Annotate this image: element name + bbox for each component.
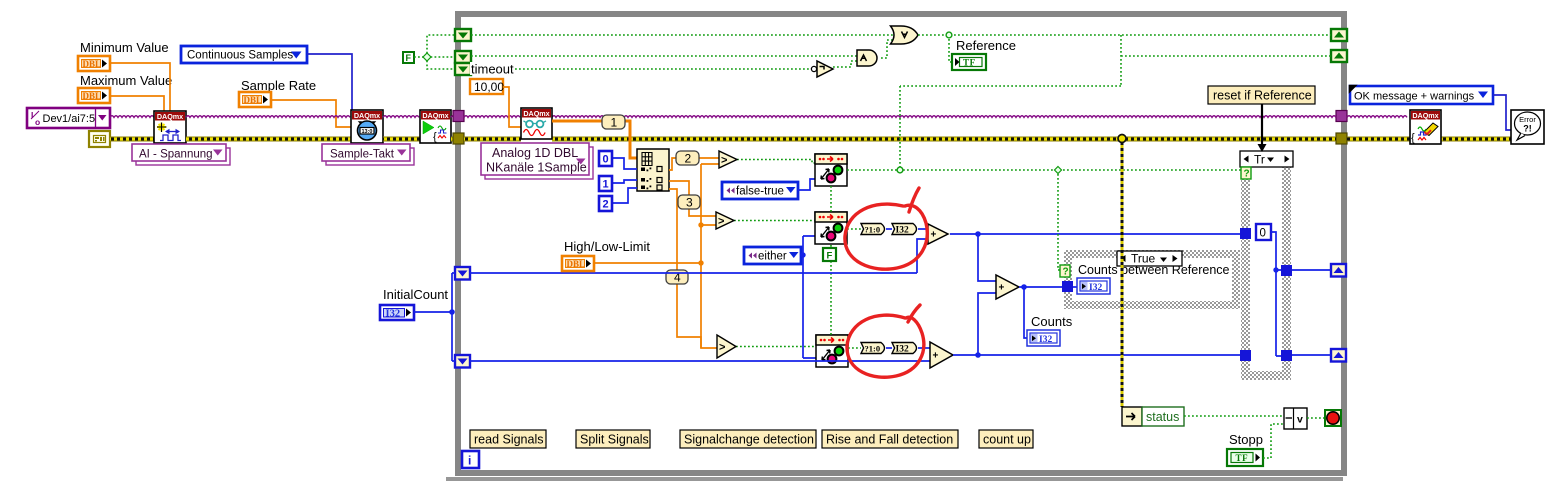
To I32 conversion lower <box>892 343 917 355</box>
tunnel Tr left upper <box>1240 228 1251 239</box>
terminal High/Low-Limit DBL <box>562 256 594 271</box>
wire index out 0 <box>669 158 719 170</box>
case structure Counts-between border <box>1064 250 1240 309</box>
svg-text:Split Signals: Split Signals <box>580 433 649 447</box>
svg-text:either: either <box>758 251 787 263</box>
tunnel Tr right upper <box>1281 265 1292 276</box>
svg-text:reset if Reference: reset if Reference <box>1213 89 1312 103</box>
wire shift reg 3 to Not gate <box>471 68 811 70</box>
wire add1 output to Tr tunnel <box>950 233 1240 235</box>
wire either to detect2 and detect3 <box>801 236 816 358</box>
shift register left initial-count lower (blue) <box>455 355 470 368</box>
wire error right tunnel to clear VI <box>1347 137 1411 142</box>
svg-text:DAQmx: DAQmx <box>354 111 380 120</box>
wire label 1 <box>602 115 625 130</box>
svg-text:True: True <box>1131 252 1156 266</box>
selector Sample-Takt <box>322 144 414 165</box>
red annotation circle upper <box>845 188 927 269</box>
tunnel error right <box>1336 133 1347 144</box>
Greater? function 3 <box>717 335 736 358</box>
svg-text:>: > <box>719 342 725 354</box>
wire shift reg 1 to Or gate <box>471 34 893 36</box>
tunnel Tr left lower <box>1240 350 1251 361</box>
svg-text:OK message + warnings: OK message + warnings <box>1354 91 1475 103</box>
wire I32 to add upper <box>918 228 928 230</box>
wire branch to add2 bottom <box>978 293 996 355</box>
wire Tr right to shift registers <box>1292 270 1331 355</box>
wire select to I32 lower <box>886 347 892 349</box>
wire greater3 to detect3 <box>736 346 816 348</box>
svg-text:0: 0 <box>603 154 609 166</box>
wire error start to loop tunnel <box>451 137 456 142</box>
svg-text:?!: ?! <box>1523 124 1532 134</box>
wire Reference routing down <box>900 35 1331 170</box>
shift register left initial-count upper (blue) <box>455 267 470 280</box>
wire F init chain <box>830 186 832 335</box>
svg-text:?: ? <box>1244 169 1250 180</box>
svg-text:Sample-Takt: Sample-Takt <box>330 149 395 161</box>
svg-text:2: 2 <box>685 152 692 166</box>
svg-text:13:0: 13:0 <box>361 129 372 135</box>
svg-text:TF: TF <box>963 58 976 68</box>
junction <box>1273 267 1278 272</box>
label reset if Reference <box>1208 86 1315 104</box>
wire shift reg 2 to And gate <box>471 55 857 57</box>
wire branch to inner case selector <box>1058 170 1060 270</box>
detect node 3 (fall detect) <box>816 335 848 367</box>
shift register right count lower (blue) <box>1331 349 1346 362</box>
wire 0 to tunnels <box>1271 232 1281 356</box>
compound or node <box>1284 408 1307 429</box>
svg-text:DBL: DBL <box>83 91 102 101</box>
indicator Counts Between Reference I32 <box>1077 278 1110 294</box>
wire index out 2 <box>669 189 717 348</box>
enum either <box>744 247 801 264</box>
detect node 1 (false-true transition) <box>815 154 847 186</box>
case Tr selector terminal ? <box>1241 167 1251 180</box>
wire const 1 to index array <box>612 180 637 183</box>
svg-text:F: F <box>827 251 833 262</box>
wire initialcount lower long <box>470 360 930 362</box>
wire initialcount upper long <box>470 272 917 274</box>
red annotation circle lower <box>847 305 924 377</box>
svg-text:DAQmx: DAQmx <box>422 111 448 120</box>
tunnel Tr right lower <box>1281 350 1292 361</box>
Greater? function 1 <box>719 151 737 168</box>
DAQmx Clear Task VI <box>1410 110 1441 144</box>
svg-text:DAQmx: DAQmx <box>1412 111 1438 120</box>
To I32 conversion upper <box>892 224 917 236</box>
junction diamond <box>423 53 431 61</box>
wire InitialCount to shift registers <box>414 273 455 361</box>
junction <box>800 252 805 257</box>
svg-text:I32: I32 <box>896 344 909 354</box>
junction <box>1021 284 1027 290</box>
label count up <box>979 430 1033 448</box>
svg-text:o: o <box>35 117 40 127</box>
wire purple read VI to right tunnel <box>552 116 1336 118</box>
Not function <box>811 61 833 77</box>
wire Reference hook <box>949 35 952 62</box>
svg-text:?1:0: ?1:0 <box>865 343 881 353</box>
Add function lower <box>930 342 953 368</box>
label Rise and Fall detection <box>822 430 958 448</box>
terminal Maximum Value DBL <box>78 88 110 103</box>
terminal Minimum Value DBL <box>78 56 110 71</box>
junction diamond <box>1055 167 1062 174</box>
wire branch to add2 top <box>978 234 996 281</box>
control Dev1/ai7:5 <box>27 108 110 128</box>
wire purple create to timing <box>186 116 350 118</box>
shift register right count upper (blue) <box>1331 264 1346 277</box>
svg-text:DBL: DBL <box>567 259 586 269</box>
selector Analog 1D DBL NKanäle 1Sample <box>481 143 593 179</box>
wire greater1 to detect1 <box>737 160 815 164</box>
Add function upper <box>928 224 948 244</box>
wire purple timing to start <box>383 116 419 118</box>
wire const 2 to index array <box>612 188 637 203</box>
svg-text:?: ? <box>1063 267 1069 278</box>
wire detect3 to select lower <box>848 347 861 349</box>
shift register left 2 (green) <box>455 51 471 63</box>
wire 10,00 to read VI <box>503 87 521 127</box>
wire Sample Rate to timing VI <box>271 100 351 127</box>
wire OK message to error dialog <box>1493 95 1511 130</box>
constant 0 <box>599 151 612 166</box>
wire label 3 <box>678 195 700 210</box>
svg-text:I32: I32 <box>1039 335 1052 345</box>
wire select to I32 upper <box>886 228 892 230</box>
shift register left 3 (green) <box>455 63 471 75</box>
annotation arrow to Tr case <box>1258 104 1267 152</box>
svg-text:1: 1 <box>603 179 609 191</box>
constant F (boolean false) <box>403 52 414 63</box>
wire Not to And <box>833 61 857 67</box>
svg-text:2: 2 <box>603 199 609 211</box>
control Stopp TF <box>1227 449 1263 466</box>
enum Continuous Samples <box>181 46 307 63</box>
wire add3 output to Tr tunnel <box>953 354 1240 356</box>
svg-text:+: + <box>931 230 937 241</box>
while loop frame <box>458 14 1344 473</box>
wire index out 1 <box>669 181 716 216</box>
wire I32 to add lower <box>918 347 930 349</box>
junction <box>449 309 455 315</box>
Simple Error Handler VI <box>1511 110 1544 144</box>
svg-text:false-true: false-true <box>736 186 784 198</box>
svg-text:Continuous Samples: Continuous Samples <box>187 50 293 62</box>
wire detect1 out long to Tr selector <box>847 169 1241 171</box>
wire or to loop condition <box>1307 417 1325 419</box>
unbundle status <box>1122 407 1184 426</box>
tunnel purple left <box>453 111 464 122</box>
svg-text:Reference: Reference <box>956 38 1016 53</box>
svg-text:{: { <box>1411 132 1415 144</box>
constant 0 in Tr case <box>1256 224 1271 240</box>
label Split Signals <box>576 430 650 448</box>
svg-text:Counts: Counts <box>1031 314 1073 329</box>
label Signalchange detection <box>680 430 816 448</box>
svg-text:Dev1/ai7:5: Dev1/ai7:5 <box>43 113 96 125</box>
wire label 2 <box>676 151 699 166</box>
svg-text:NKanäle 1Sample: NKanäle 1Sample <box>486 161 587 175</box>
svg-text:+: + <box>933 351 939 362</box>
case structure Tr border <box>1241 166 1291 380</box>
svg-text:AI - Spannung: AI - Spannung <box>139 149 213 161</box>
svg-text:DBL: DBL <box>83 59 102 69</box>
wire const 0 to index array <box>612 158 637 169</box>
svg-text:read Signals: read Signals <box>474 433 544 447</box>
tunnel into case <box>1062 281 1073 292</box>
wire Maximum Value to DAQmx create <box>110 96 164 111</box>
svg-text:?1:0: ?1:0 <box>865 224 881 234</box>
terminal InitialCount I32 <box>380 305 414 320</box>
shift register right 2 (green) <box>1331 50 1347 62</box>
case selector terminal ? <box>1060 265 1070 278</box>
constant F 2 <box>823 248 836 262</box>
junction <box>698 222 703 227</box>
DAQmx Timing VI <box>351 110 383 143</box>
wire branch to Counts indicator <box>1024 287 1027 338</box>
shift register right 1 (green) <box>1331 29 1347 41</box>
DAQmx Start Task VI <box>420 110 451 143</box>
error cluster constant <box>89 131 110 147</box>
wire Continuous Samples to timing VI <box>307 54 352 110</box>
svg-text:Maximum Value: Maximum Value <box>80 73 172 88</box>
svg-text:Minimum Value: Minimum Value <box>80 40 169 55</box>
wire status to or <box>1184 415 1284 417</box>
svg-text:DAQmx: DAQmx <box>523 109 549 118</box>
case selector label Tr <box>1240 151 1293 167</box>
wire F to shift registers <box>414 56 423 58</box>
junction <box>975 231 981 237</box>
terminal Sample Rate DBL <box>239 92 271 107</box>
svg-text:I32: I32 <box>896 225 909 235</box>
svg-text:i: i <box>468 454 471 468</box>
Greater? function 2 <box>716 212 734 229</box>
shift register left 1 (green) <box>455 29 471 41</box>
svg-text:F: F <box>406 53 412 63</box>
wire to add1 lower input <box>917 239 928 273</box>
iteration terminal i <box>462 451 479 468</box>
wire purple start to loop tunnel <box>451 116 455 118</box>
indicator Counts I32 <box>1027 330 1060 346</box>
svg-text:Stopp: Stopp <box>1229 432 1263 447</box>
svg-text:status: status <box>1146 410 1179 424</box>
DAQmx Read VI <box>521 108 552 139</box>
junction ring <box>946 32 952 38</box>
wire error branch vertical <box>1121 142 1124 407</box>
svg-text:Rise and Fall detection: Rise and Fall detection <box>826 433 953 447</box>
Boolean to (1,0) upper <box>861 224 885 235</box>
svg-text:1: 1 <box>611 116 618 130</box>
tunnel purple right <box>1336 111 1347 122</box>
svg-text:+: + <box>999 283 1005 294</box>
selector AI - Spannung <box>132 144 230 165</box>
svg-text:High/Low-Limit: High/Low-Limit <box>564 239 650 254</box>
Add function count up <box>996 275 1019 299</box>
constant 10,00 <box>470 79 504 94</box>
constant 1 <box>599 176 612 191</box>
svg-text:count up: count up <box>983 433 1031 447</box>
svg-text:I32: I32 <box>1089 283 1102 293</box>
wire Or output to right shift register 1 <box>918 34 1331 36</box>
svg-text:I32: I32 <box>386 309 401 320</box>
wire tunnel to indicator <box>1073 286 1077 288</box>
svg-text:3: 3 <box>686 196 693 210</box>
DAQmx Create Virtual Channel VI <box>154 111 186 143</box>
wire Stopp to or <box>1263 424 1284 458</box>
label read Signals <box>470 430 546 448</box>
wire error clear VI to dialog <box>1441 137 1511 142</box>
wire error cluster to create VI <box>110 137 154 142</box>
junction <box>975 352 981 358</box>
wire error read VI to right tunnel <box>552 137 1336 142</box>
svg-text:Analog 1D DBL: Analog 1D DBL <box>492 146 578 160</box>
svg-text:v: v <box>1297 414 1303 426</box>
enum false-true <box>722 182 798 199</box>
wire And to Or <box>881 40 893 58</box>
Index Array node <box>637 149 669 191</box>
svg-text:{: { <box>433 131 437 143</box>
wire High/Low-Limit distribution <box>594 164 719 348</box>
And function <box>857 50 877 66</box>
svg-text:Signalchange detection: Signalchange detection <box>684 433 814 447</box>
loop condition stop terminal <box>1325 410 1341 426</box>
wire add2 out to case tunnel <box>1019 286 1062 288</box>
constant 2 <box>599 196 612 211</box>
junction ring <box>897 167 903 173</box>
wire label 4 <box>666 270 688 285</box>
wire greater2 to detect2 <box>734 220 815 222</box>
wire error timing to start <box>383 137 420 142</box>
wire detect2 to select <box>847 228 861 230</box>
wire error create to timing <box>186 137 351 142</box>
wire array data read VI to Index Array <box>552 121 637 158</box>
tunnel error left <box>453 133 464 144</box>
wire false-true to detect1 <box>798 179 815 190</box>
wire error tunnel to read VI <box>464 137 521 142</box>
indicator Reference TF <box>952 54 986 70</box>
svg-text:0: 0 <box>1260 228 1266 240</box>
wire purple tunnel to read VI <box>464 116 520 118</box>
svg-text:10,00: 10,00 <box>474 80 504 94</box>
svg-text:>: > <box>721 155 727 167</box>
svg-text:DAQmx: DAQmx <box>157 112 183 121</box>
junction ring on error wire <box>1118 135 1126 143</box>
label timeout <box>470 62 514 75</box>
svg-text:TF: TF <box>1236 453 1249 463</box>
svg-text:timeout: timeout <box>471 62 514 77</box>
svg-text:>: > <box>718 216 724 228</box>
svg-text:InitialCount: InitialCount <box>383 287 448 302</box>
Boolean to (1,0) lower <box>861 343 885 354</box>
Or function <box>891 26 919 44</box>
svg-text:DBL: DBL <box>244 95 263 105</box>
enum OK message + warnings <box>1349 85 1493 104</box>
wire DAQmx task Dev to create VI <box>110 116 154 118</box>
svg-text:Tr: Tr <box>1254 153 1265 167</box>
junction <box>698 260 703 265</box>
case selector label True <box>1117 251 1182 266</box>
wire purple right tunnel to clear VI <box>1347 116 1407 118</box>
wire Minimum Value to DAQmx create <box>110 63 170 111</box>
detect node 2 (rise detect) <box>815 212 847 244</box>
